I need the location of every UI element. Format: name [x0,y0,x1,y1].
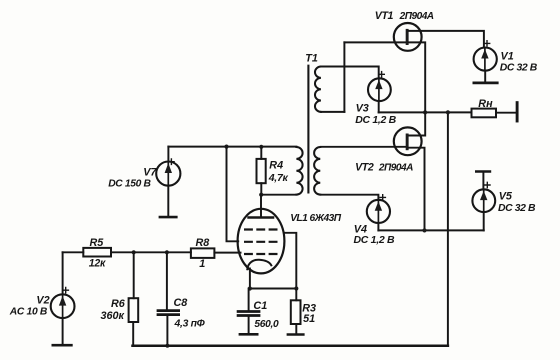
wire V7 top stub [167,147,169,160]
wire V7 node rail [168,146,296,148]
svg-text:C1: C1 [253,300,267,312]
wire input rail V2 to R5 [63,251,84,253]
wire R5 to R8 [111,251,191,253]
wire screen grid jog [227,147,239,242]
wire C8 top lead [166,252,168,309]
resistor R3 [291,300,301,324]
wire V3 bottom stub [378,101,380,112]
tube VL1 envelope [238,209,285,274]
wire T1 upper winding bottom [321,111,345,113]
wire R4 top lead [260,147,262,159]
ground V2 [53,344,72,347]
tube VL1 anode bar [249,216,273,219]
svg-text:DC 150 В: DC 150 В [108,179,151,190]
node dot C8 junction [165,250,169,254]
wire V4 bottom stub [377,223,379,230]
svg-text:V3: V3 [356,103,369,115]
ground V1 [474,82,497,85]
wire VT1 source drop [409,42,426,135]
node dot C8 to rail [165,344,169,348]
terminal bar output [516,103,519,121]
transformer T1 core [307,66,309,193]
svg-text:C8: C8 [174,297,188,309]
svg-text:V7: V7 [143,166,157,178]
svg-text:DC 32 В: DC 32 В [500,62,538,73]
wire anode lead [260,195,262,217]
resistor R4 [257,159,266,183]
svg-text:1: 1 [199,258,205,270]
source V1 [474,48,497,71]
wire cathode lead [249,269,251,289]
resistor R6 [129,298,139,322]
wire R3 bottom lead [295,324,297,333]
wire C1 top lead [248,289,250,311]
transformer T1 lower right winding [314,147,320,195]
wire VT1 drain to V1 [409,31,484,48]
svg-text:V5: V5 [499,191,513,203]
svg-text:DC 1,2 В: DC 1,2 В [355,114,396,126]
ground C1 [240,333,257,336]
wire V2 riser [62,252,64,294]
svg-text:4,7к: 4,7к [268,172,289,184]
svg-text:R6: R6 [111,298,126,310]
node dot screen-grid junction [224,145,228,149]
wire V7 to ground [167,186,169,216]
transformer T1 upper winding [315,67,321,112]
wire V5 bottom stub [483,212,485,230]
wire right bus [447,112,449,345]
wire R8 to tube grid [214,252,240,254]
svg-text:V1: V1 [501,51,514,63]
transistor VT1 [394,23,422,51]
svg-text:R4: R4 [269,160,283,172]
node dot A left [423,110,427,114]
source V7 [156,162,180,186]
svg-text:AC 10 В: AC 10 В [9,306,48,317]
wire cathode rail [250,288,296,290]
wire R3 top lead [295,289,297,301]
node dot anode junction [259,193,263,197]
svg-text:V2: V2 [36,295,49,307]
svg-text:560,0: 560,0 [254,319,279,330]
svg-text:4,3 пФ: 4,3 пФ [174,319,206,330]
wire C1 bottom lead [248,317,250,333]
wire R6 top lead [133,252,135,298]
wire V2 to ground [62,318,64,344]
source V2 [51,294,75,318]
source V5 [472,189,495,212]
wire V5 top stub [482,173,484,190]
transformer T1 lower left winding [296,147,302,195]
svg-text:R5: R5 [90,237,105,249]
svg-text:2П904А: 2П904А [378,163,413,174]
node dot R6 junction [132,250,136,254]
svg-text:DC 32 В: DC 32 В [498,203,536,214]
svg-text:DC 1,2 В: DC 1,2 В [354,234,395,246]
ground V7 [160,216,176,219]
svg-text:Rн: Rн [478,98,493,110]
tube VL1 grid g1 dashes [244,253,279,255]
wire anode node to winding [261,194,296,196]
source V3 [368,78,391,101]
wire VT1 gate [344,41,406,43]
wire V4 V5 common [378,229,483,231]
wire C8 bottom lead [166,316,168,346]
capacitor C1 [238,310,259,313]
resistor R8 [191,248,215,258]
svg-text:360к: 360к [101,310,125,322]
svg-text:51: 51 [303,313,315,325]
tube VL1 grid g2 dashes [244,241,279,243]
svg-text:VL1 6Ж43П: VL1 6Ж43П [290,213,342,224]
node dot cathode left [248,286,252,290]
node dot A right [446,110,450,114]
wire R6 bottom lead [132,322,134,346]
transistor VT2 [394,127,422,155]
capacitor C8 [158,309,179,312]
svg-text:VT1: VT1 [375,10,394,22]
svg-text:VT2: VT2 [355,162,374,174]
source V4 [367,200,390,223]
wire T1 lower right winding bottom to V4 [320,195,378,200]
wire VT2 gate [321,146,406,148]
node dot cathode right [294,286,298,290]
terminal bar V5 top [476,170,490,172]
tube VL1 grid g3 dashes [244,228,279,230]
wire V1 to ground [484,71,486,82]
tube VL1 cathode [247,260,271,269]
wire g3 stub right [284,233,296,289]
resistor Rn [472,109,497,118]
wire T1 upper winding top to V3 [321,67,379,79]
wire bottom rail [133,344,448,347]
svg-text:2П904А: 2П904А [399,11,434,22]
wire VT1 gate riser [343,42,345,112]
node dot R4 top [259,145,263,149]
node dot VT2 source junction [422,228,426,232]
svg-text:R8: R8 [196,237,210,249]
svg-text:12к: 12к [89,258,106,270]
wire node A horizontal [379,111,472,113]
wire R4 bottom lead [260,183,262,195]
svg-text:T1: T1 [305,53,318,65]
resistor R5 [83,248,111,257]
wire Rn to terminal [496,112,516,114]
ground R3 [288,333,303,336]
wire VT2 source drop [409,148,425,231]
